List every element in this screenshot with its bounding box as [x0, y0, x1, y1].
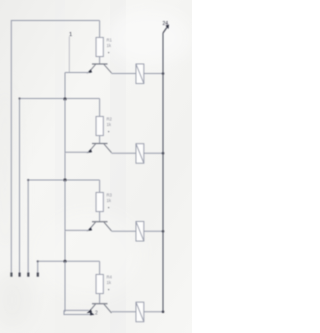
terminal mark bus L4: [37, 273, 39, 277]
value label R4: [107, 275, 113, 293]
value label R2: [107, 117, 113, 135]
right supply bus 24V: [162, 33, 164, 312]
chain wire stage2 emitter to stage3 input: [64, 153, 66, 180]
svg-text:R4: R4: [107, 275, 113, 280]
transistor Q2: [90, 144, 112, 153]
collector wire stage1: [112, 73, 137, 75]
emitter arrow Q4: [87, 309, 93, 313]
emitter wire stage3: [65, 229, 89, 231]
supply arrow: [163, 27, 168, 34]
emitter wire stage2: [65, 151, 89, 153]
junction bus K3: [162, 230, 165, 233]
svg-text:R3: R3: [107, 193, 113, 198]
value label R3: [107, 193, 113, 211]
emitter wire stage1: [65, 72, 89, 74]
corner dot bus L3: [27, 179, 29, 181]
collector wire stage2: [112, 152, 137, 154]
svg-text:24: 24: [163, 21, 169, 27]
svg-text:1: 1: [69, 32, 72, 38]
relay coil K4: [136, 302, 163, 322]
collector wire stage3: [112, 230, 137, 232]
chain wire stage4: [64, 261, 66, 311]
left bus line L2 (input 2): [20, 99, 100, 275]
emitter arrow Q1: [87, 69, 93, 73]
left bus line L3 (input 3): [28, 180, 99, 275]
transistor Q4: [90, 304, 112, 313]
junction bus K2: [162, 152, 165, 155]
chain wire stage3 emitter to stage4 input: [64, 231, 66, 261]
relay coil K2: [136, 144, 163, 164]
terminal mark bus L2: [19, 273, 21, 277]
emitter wire stage4: [64, 309, 89, 311]
svg-text:2: 2: [95, 311, 98, 317]
chain wire stage3: [64, 180, 66, 231]
junction stage3 input: [63, 178, 66, 181]
value label R1: [107, 38, 113, 56]
resistor R4: [96, 261, 103, 303]
transistor Q1: [90, 64, 112, 73]
relay coil K3: [136, 222, 163, 242]
resistor R3: [96, 180, 103, 222]
relay coil K1: [136, 64, 163, 84]
resistor R2: [96, 99, 103, 144]
svg-text:R2: R2: [107, 117, 113, 122]
junction stage2 input: [63, 97, 66, 100]
terminal mark bus L1: [10, 273, 12, 277]
net label 1 leader: [68, 37, 70, 73]
terminal mark bus L3: [27, 273, 29, 277]
transistor Q3: [90, 222, 112, 231]
corner bus K4: [162, 310, 165, 313]
junction stage4 input: [63, 260, 66, 263]
paper background: [0, 0, 192, 333]
chain wire stage1 emitter to stage2 input: [64, 73, 66, 99]
left bus line L4 (input 4): [38, 261, 100, 274]
corner dot bus L4: [37, 260, 39, 262]
output arrow net 2: [90, 312, 95, 316]
chain wire stage2: [64, 99, 66, 153]
collector wire stage4: [112, 311, 137, 313]
svg-text:R1: R1: [107, 38, 113, 43]
corner dot bus L2: [18, 97, 20, 99]
resistor R1: [96, 21, 103, 65]
left bus line L1 (input 1): [11, 21, 99, 275]
output jog wire stage4: [64, 310, 93, 314]
emitter arrow Q2: [87, 149, 93, 153]
emitter arrow Q3: [87, 227, 93, 231]
junction bus K1: [162, 72, 165, 75]
